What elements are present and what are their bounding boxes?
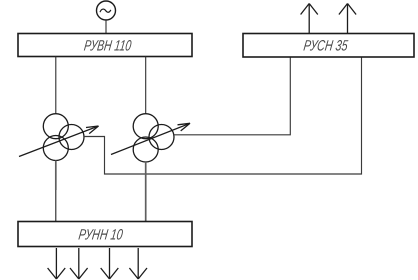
transformer T1 (three-winding, on-load tap changer arrow) bbox=[19, 114, 99, 161]
wire: AC source to РУВН 110 bus bbox=[105, 20, 107, 34]
outgoing feeder arrow 1 from РУСН 35 (up) bbox=[301, 4, 318, 34]
outgoing feeder arrow 2 from РУНН 10 (down) bbox=[70, 248, 88, 279]
svg-text:РУНН 10: РУНН 10 bbox=[77, 227, 124, 244]
wire: T2 secondary to РУНН 10 bus bbox=[145, 162, 147, 222]
outgoing feeder arrow 1 from РУНН 10 (down) bbox=[48, 248, 66, 279]
AC source G (generator/system) bbox=[97, 1, 116, 20]
busbar box РУНН 10 bbox=[18, 222, 192, 247]
wire: T1 tertiary winding to РУСН 35 bus (right, down, right, up) bbox=[84, 57, 362, 174]
wire: T1 secondary to РУНН 10 bus bbox=[55, 161, 57, 191]
svg-text:РУСН 35: РУСН 35 bbox=[302, 38, 349, 55]
wire: T2 tertiary winding to РУСН 35 bus (right, up) bbox=[174, 57, 290, 135]
outgoing feeder arrow 4 from РУНН 10 (down) bbox=[129, 248, 147, 279]
wire: РУВН bus to transformer T2 primary bbox=[145, 57, 147, 114]
busbar box РУВН 110 bbox=[18, 34, 192, 57]
transformer T2 (three-winding, on-load tap changer arrow) bbox=[111, 114, 190, 162]
outgoing feeder arrow 2 from РУСН 35 (up) bbox=[339, 4, 356, 34]
wire: РУВН bus to transformer T1 primary bbox=[55, 57, 57, 114]
busbar box РУСН 35 bbox=[243, 34, 414, 58]
outgoing feeder arrow 3 from РУНН 10 (down) bbox=[101, 248, 119, 279]
svg-text:РУВН 110: РУВН 110 bbox=[83, 38, 133, 55]
